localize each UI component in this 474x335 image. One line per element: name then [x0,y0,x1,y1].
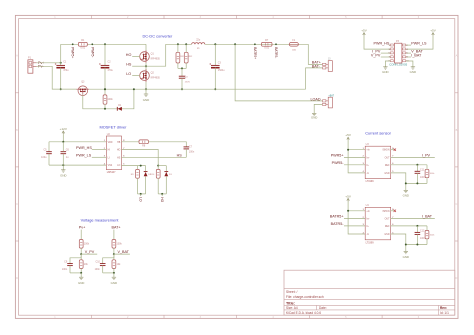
svg-text:Sheet: /: Sheet: / [286,290,297,294]
shunt resistor R1 [78,39,87,49]
junction Q2 source [145,88,147,90]
net label BATR5+ [330,215,365,219]
junction pair1 top [140,165,142,167]
power symbol +5V sensor 1 [345,133,352,150]
capacitor C1 (input electrolytic) [55,44,69,89]
net label PWR5- [332,161,366,165]
junction divider bottom [80,272,82,274]
svg-text:HI: HI [108,150,111,152]
svg-text:Current sensor: Current sensor [365,131,391,136]
net label BATR5- (vertical) [274,43,278,58]
wire GND pin down [391,234,406,251]
ground symbol at load connector [311,113,317,119]
fuse F1 [289,39,298,51]
junction C3 bottom [214,88,216,90]
wire LOAD tap riser [235,44,322,101]
svg-text:I_BAT: I_BAT [411,53,422,57]
svg-text:470u: 470u [108,69,114,72]
op-amp U4 current sense LT1999 [363,204,395,244]
net label V_BAT at connector [406,49,424,53]
svg-text:BATR5+: BATR5+ [253,47,257,59]
svg-text:OUT: OUT [385,157,390,159]
svg-text:GND: GND [143,98,149,102]
svg-text:BATR5-: BATR5- [274,47,278,58]
svg-text:/SHDN: /SHDN [382,211,389,213]
junction RC ground 1 [405,182,407,184]
wire SW rail to inductor [166,43,192,45]
svg-text:Rev:: Rev: [440,306,447,310]
connector J4 load [323,95,335,108]
svg-text:470u: 470u [63,69,69,72]
junction VSS at C6 [62,164,64,166]
net label I_BAT at connector [406,53,422,57]
no-connect on /SHDN pin sensor 2 [391,210,396,212]
svg-text:/SHDN: /SHDN [382,150,389,152]
wire switch node riser [146,44,166,66]
svg-text:HB: HB [117,142,121,144]
svg-text:100n: 100n [189,151,195,154]
svg-text:Title:: Title: [286,301,295,305]
capacitor C2 (input electrolytic) [99,44,113,89]
junction gate riser top [133,88,135,90]
op-amp U3 current sense LT1999 [363,143,395,183]
svg-text:100n: 100n [62,268,68,271]
svg-text:C11: C11 [420,168,425,171]
net label PWR_LS [76,154,106,158]
junction snubber R6 top [185,43,187,45]
net label PWR_LS at connector [406,41,427,45]
svg-text:+5V: +5V [345,194,352,198]
svg-text:HS: HS [177,154,183,158]
svg-text:22u: 22u [196,39,201,42]
wire Q2 source to bottom rail [145,82,147,89]
svg-text:HO: HO [160,197,164,202]
svg-text:D: D [16,277,18,280]
junction RC ground 1 [405,244,407,246]
diode D1 gate zener [117,104,122,111]
net label PWR_HS at connector [374,41,391,45]
svg-text:0.01: 0.01 [80,47,85,50]
svg-text:KiCad E.D.A. kicad 4.0.6: KiCad E.D.A. kicad 4.0.6 [286,311,321,315]
svg-text:BATR5+: BATR5+ [330,215,344,219]
svg-text:100n: 100n [95,268,101,271]
svg-text:PWR5+: PWR5+ [71,47,75,58]
svg-text:MOSFET driver: MOSFET driver [100,124,128,129]
wire LOAD ground return [314,104,322,113]
transistor Q3 reverse protection MOSFET [76,81,89,96]
capacitor C4 snubber [179,68,191,89]
junction REF at cap [416,225,418,227]
wire snubber join [178,67,186,69]
svg-text:In-: In- [366,165,369,167]
resistor R9 gate LS [131,166,140,194]
junction RC ground 2 [416,182,418,184]
wire RC bottom [406,244,427,246]
wire BAT- return [306,68,323,89]
wire to BAT+ connector [308,44,322,64]
ground symbol connector right [410,67,416,74]
svg-text:C: C [455,203,457,206]
op-amp U2 gate driver LM5107 [104,133,125,174]
wire divider bottom join [70,272,81,274]
junction +5V node sensor 2 [347,210,349,212]
svg-text:REF: REF [385,226,390,228]
svg-text:+5V: +5V [430,29,437,33]
ground symbol sensor 2 [403,251,409,258]
resistor R15 reference [425,165,435,184]
wire RC bottom [406,182,427,184]
svg-text:250V: 250V [185,82,191,84]
svg-text:LT1999: LT1999 [366,241,375,244]
junction +5V node sensor 1 [347,149,349,151]
svg-text:HS: HS [117,157,121,159]
junction pair2 top [157,165,159,167]
junction C2 bottom [104,88,106,90]
svg-text:I_PV: I_PV [422,154,431,158]
transistor Q1 high-side MOSFET [140,44,161,63]
svg-text:100u: 100u [41,156,47,159]
shunt resistor R7 [262,39,273,49]
svg-text:In-: In- [366,226,369,228]
junction RC ground 2 [416,244,418,246]
svg-text:100k: 100k [117,243,123,246]
svg-text:GND: GND [403,194,409,198]
svg-text:10A: 10A [292,48,296,51]
svg-text:GND: GND [311,115,317,119]
capacitor C11 reference filter [415,165,426,184]
capacitor C6 decoupling [61,142,70,165]
svg-text:GND: GND [111,281,117,285]
svg-text:V_BAT: V_BAT [118,250,130,254]
wire +5V to pins 1 and 4 [348,150,365,173]
net label V_BAT [114,250,130,254]
svg-text:GND: GND [382,70,388,74]
net label HO [126,53,140,57]
wire bottom rail right segment [89,88,305,90]
svg-text:DC-DC converter: DC-DC converter [143,33,174,38]
ground symbol divider [111,273,117,285]
svg-text:PWR5+: PWR5+ [331,154,344,158]
resistor R8 bootstrap [139,140,148,148]
net label I_PV at connector [372,49,390,53]
resistor R12 divider bottom [79,254,88,273]
node junction at C1 tap [60,62,62,64]
capacitor C5 bulk [41,142,52,165]
junction snubber mid [181,67,183,69]
svg-text:GND: GND [60,173,66,177]
svg-text:+12V: +12V [60,127,68,131]
svg-text:BATR5-: BATR5- [331,222,345,226]
resistor R10 gate HS [150,166,160,194]
svg-text:File: charge-controller.sch: File: charge-controller.sch [286,295,324,299]
wire Q3 gate network [83,89,134,109]
net label BATR5+ (vertical) [253,43,257,59]
svg-text:V_PV: V_PV [85,250,95,254]
wire +5V to pins 1 and 4 [348,211,365,234]
junction VDD at C6 [62,141,64,143]
wire bottom rail left segment [52,88,76,90]
connector P3 signal header 2x05 [389,40,410,66]
svg-text:PWR_LS: PWR_LS [76,154,92,158]
wire pair2 bottom join [158,193,166,195]
power symbol +5V left of signal connector [361,29,390,49]
svg-text:GND: GND [410,70,416,74]
svg-text:VDD: VDD [108,142,113,144]
net label BATR5- [331,222,366,226]
snubber resistor R5 [176,44,185,68]
svg-text:GND: GND [384,234,389,236]
resistor R11 divider top [79,230,89,255]
junction pair1 bottom [140,193,142,195]
svg-text:LT1999: LT1999 [366,180,375,183]
svg-text:PWR5-: PWR5- [332,161,345,165]
net label V_PV at connector [371,53,391,57]
diode D3 gate HS [164,166,172,194]
svg-text:Voltage measurement: Voltage measurement [81,218,120,223]
wire pair2 top [158,165,166,167]
junction LOAD tap [234,43,236,45]
svg-text:Pv+: Pv+ [79,226,85,230]
ground symbol below Q2 [143,89,149,102]
svg-text:D: D [455,277,457,280]
svg-text:GND: GND [78,281,84,285]
net label HO vertical below pair2 [160,194,164,203]
svg-text:HS: HS [126,63,132,67]
svg-text:IRF4905: IRF4905 [151,57,161,60]
junction divider node [113,253,115,255]
capacitor C12 reference filter [415,226,426,245]
junction R3 top [104,88,106,90]
svg-text:GND: GND [384,173,389,175]
power symbol +5V sensor 2 [345,194,352,211]
wire left GND of connector [385,61,390,67]
power symbol +5V right of signal connector [406,29,437,49]
inductor L1 [192,39,205,50]
title block texts [286,290,449,315]
power symbol +12V [60,127,68,142]
wire VSS rail [49,164,106,166]
svg-text:LO: LO [139,197,143,202]
wire Pv- down to bottom rail [37,66,77,89]
wire LO pin to gate resistor pair [122,165,146,167]
snubber resistor R6 [184,44,193,68]
svg-text:1500u: 1500u [218,69,225,72]
svg-text:C10: C10 [96,260,101,263]
resistor R13 divider top [112,230,122,255]
net label LO vertical below pair1 [139,194,143,202]
wire bootstrap to C7 [148,142,186,147]
wire REF to RC filter [391,225,427,227]
svg-text:V_PV: V_PV [371,53,381,57]
svg-text:100k: 100k [84,243,90,246]
svg-text:LO: LO [117,165,120,167]
net label PWR_HS [76,146,106,150]
junction C4 bottom [181,88,183,90]
junction C3 top [214,43,216,45]
net label PWR5+ (vertical) [71,43,75,58]
svg-text:+5V: +5V [345,133,352,137]
ground symbol driver [60,165,66,177]
junction gate wire [104,108,106,110]
svg-text:Size: A4: Size: A4 [286,306,298,310]
svg-text:PWR5-: PWR5- [90,47,94,57]
wire OUT to label [391,156,435,158]
title block [284,270,455,315]
wire REF to RC filter [391,164,427,166]
svg-text:CONN_02X05: CONN_02X05 [389,62,407,66]
svg-text:PWR_LS: PWR_LS [411,41,427,45]
junction divider bottom [113,272,115,274]
resistor R14 divider bottom [112,254,121,273]
wire VDD rail [49,141,106,143]
capacitor C3 output electrolytic [209,44,225,89]
svg-text:GND: GND [403,255,409,259]
svg-text:REF: REF [385,165,390,167]
net label LO [126,72,140,76]
connector P1 (PV input) [28,57,37,74]
junction REF at cap [416,164,418,166]
junction snubber R5 top [177,43,179,45]
svg-text:100k: 100k [107,98,113,101]
ground symbol connector left [382,67,388,74]
connector J3 battery [323,59,333,72]
net label V_PV [81,250,97,254]
svg-text:VSS: VSS [108,165,113,167]
svg-text:I_BAT: I_BAT [422,215,433,219]
junction C2 top [104,43,106,45]
junction switch node [145,65,147,67]
svg-text:BAT+: BAT+ [112,226,121,230]
wire HS pin to bootstrap return [122,156,187,158]
svg-text:LOAD: LOAD [311,97,321,101]
ground symbol divider [78,273,84,285]
svg-text:Id: 1/1: Id: 1/1 [440,311,449,315]
junction divider node [80,253,82,255]
wire OUT to label [391,218,435,220]
wire Q1 source to mid node [145,63,147,70]
capacitor C7 bootstrap [184,146,195,158]
wire output rail [205,43,308,45]
capacitor C10 filter [95,254,114,273]
diode D2 gate LS [144,166,152,194]
svg-text:Date:: Date: [319,306,327,310]
svg-text:LO: LO [126,72,131,76]
svg-text:PWR_HS: PWR_HS [76,146,92,150]
svg-text:PWR_HS: PWR_HS [374,41,390,45]
junction pair2 bottom [161,193,163,195]
resistor R16 reference [425,226,435,245]
svg-text:LM5107: LM5107 [107,171,116,174]
no-connect on /SHDN pin sensor 1 [391,149,396,151]
svg-text:HO: HO [117,150,121,152]
net label PWR5+ [331,154,366,158]
wire divider bottom join [103,272,114,274]
svg-text:C12: C12 [420,230,425,233]
resistor R3 gate pulldown [103,89,113,109]
wire HO pin to gate resistor pair [122,150,159,166]
svg-text:IRF4905: IRF4905 [151,77,161,80]
ground symbol sensor 1 [403,190,409,197]
capacitor C9 filter [62,254,81,273]
wire top rail PV+ segment [61,43,79,45]
svg-text:+5V: +5V [361,29,368,33]
wire HB pin to bootstrap [122,141,140,143]
wire right GND of connector [406,61,413,67]
svg-text:0.01: 0.01 [264,47,269,50]
transistor Q2 low-side MOSFET [140,69,161,82]
wire GND pin down [391,173,406,190]
svg-text:OUT: OUT [385,219,390,221]
net label PWR5- (vertical) [90,43,94,57]
junction C1 bottom [60,88,62,90]
net label HS at switch node [126,63,146,67]
svg-text:+BAT: +BAT [328,95,334,98]
wire pair1 bottom join [138,193,146,195]
wire Pv+ to C1 node [37,62,61,64]
svg-text:HO: HO [126,53,132,57]
svg-text:C: C [16,203,18,206]
